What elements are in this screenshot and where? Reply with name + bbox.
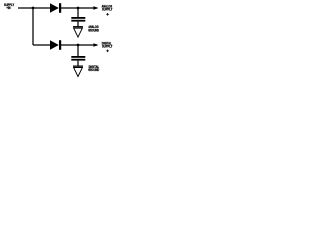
capacitor C1 (analog bypass) — [71, 8, 85, 26]
wire vertical from junction down — [32, 8, 34, 45]
label ANALOG SUPPLY + — [102, 4, 113, 17]
svg-text:GROUND: GROUND — [88, 29, 99, 33]
label ANALOG GROUND — [88, 25, 99, 32]
arrowhead digital supply — [93, 43, 98, 46]
label DIGITAL GROUND — [88, 65, 100, 72]
wire from D1 cathode to analog supply arrow — [61, 7, 97, 9]
wire top rail from input to diode D1 anode — [18, 7, 50, 9]
junction dot at capacitor C1 — [77, 7, 80, 10]
wire from D2 cathode to digital supply arrow — [61, 44, 97, 46]
analog ground symbol — [73, 26, 83, 37]
node label SUPPLY +IN — [4, 3, 15, 10]
label DIGITAL SUPPLY + — [102, 41, 113, 53]
diode D1 (analog) — [50, 3, 61, 13]
digital ground symbol — [73, 66, 83, 77]
capacitor C2 (digital bypass) — [71, 45, 85, 66]
svg-text:+: + — [106, 48, 109, 53]
diode D2 (digital) — [50, 40, 61, 50]
arrowhead analog supply — [93, 6, 98, 9]
svg-text:+IN: +IN — [6, 6, 10, 10]
wire elbow to diode D2 anode — [33, 44, 50, 46]
junction dot at capacitor C2 — [77, 44, 80, 47]
junction dot at top rail — [32, 7, 35, 10]
svg-text:+: + — [106, 12, 109, 17]
svg-text:GROUND: GROUND — [88, 68, 99, 72]
